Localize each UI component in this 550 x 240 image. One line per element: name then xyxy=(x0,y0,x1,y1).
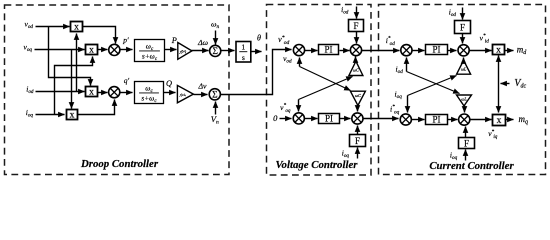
svg-text:ωL: ωL xyxy=(461,67,467,72)
wire V_n into sigma2 xyxy=(215,102,217,115)
wire X2 output to p sum xyxy=(98,49,108,51)
gain wL down xyxy=(457,95,472,106)
svg-text:Σ: Σ xyxy=(212,47,217,57)
wire V3 to PI xyxy=(305,118,318,120)
sum junction C1 xyxy=(401,45,412,56)
wire X1 output to p sum xyxy=(83,27,116,44)
multiplier X4 xyxy=(67,110,78,121)
gain wC up xyxy=(349,61,363,75)
svg-text:x: x xyxy=(74,23,79,33)
svg-text:Voltage Controller: Voltage Controller xyxy=(276,159,359,171)
wire v_oq input xyxy=(35,49,85,51)
multiplier X3 xyxy=(86,87,98,98)
svg-text:PI: PI xyxy=(432,115,440,125)
droop controller dashed box xyxy=(5,5,230,175)
PI voltage q-axis xyxy=(319,114,340,124)
gain -nq xyxy=(177,85,193,102)
wire PI to sum V2 xyxy=(340,50,350,52)
wire dw to sum1 xyxy=(192,50,209,52)
sum junction q xyxy=(109,87,120,98)
sum junction C4 xyxy=(459,114,470,125)
wire X3 output to q sum xyxy=(98,92,108,94)
svg-text:p′: p′ xyxy=(122,36,129,45)
svg-text:Δω: Δω xyxy=(197,38,209,47)
wire i_od feedback into C1 xyxy=(406,58,408,72)
svg-text:PI: PI xyxy=(325,114,333,124)
sum junction C3 xyxy=(400,114,411,125)
wire m_q output xyxy=(505,119,514,121)
wire PI to sum C4 xyxy=(448,119,458,121)
wire F output into C4 xyxy=(465,127,467,138)
wire i_oq input xyxy=(36,114,65,116)
wire v_oq feedback into V3 xyxy=(298,100,300,112)
wire i_oq branch to multiplier X2 xyxy=(55,57,93,115)
wire q to LPF2 xyxy=(120,92,133,94)
wire F output into V4 xyxy=(357,126,359,135)
svg-text:x: x xyxy=(497,116,502,126)
modulation divider x q-axis xyxy=(493,115,506,127)
wire PI to sum C2 xyxy=(448,50,457,52)
sum junction C2 xyxy=(458,45,469,56)
wire i_oq feedback into C3 xyxy=(407,96,409,113)
wire C3 to PI xyxy=(412,119,425,121)
svg-text:0: 0 xyxy=(273,113,278,123)
svg-text:x: x xyxy=(496,46,501,56)
svg-text:θ: θ xyxy=(257,33,261,42)
sum sigma1 xyxy=(210,45,221,57)
current controller dashed box xyxy=(379,5,546,175)
sum junction V2 xyxy=(350,45,361,56)
wire v_oq branch to multiplier X4 xyxy=(71,50,73,109)
wire i_od into F xyxy=(356,7,358,19)
low-pass filter block wc/(s+wc) P xyxy=(135,40,165,63)
svg-text:Δv: Δv xyxy=(197,81,207,90)
gain -mp xyxy=(177,43,191,60)
feedforward F voltage q-axis xyxy=(350,135,366,147)
sum junction p xyxy=(109,44,120,55)
svg-text:F: F xyxy=(353,21,358,31)
svg-text:Q: Q xyxy=(166,79,172,88)
wire V_dc to divider d-axis xyxy=(498,56,500,84)
wire m_d output xyxy=(505,50,514,52)
svg-text:ωC: ωC xyxy=(353,68,359,73)
wire i_od into F xyxy=(462,8,464,20)
wire i_od cross-coupling diagonal to wL gain xyxy=(407,72,460,94)
wire F output into V2 xyxy=(356,32,358,44)
multiplier X2 xyxy=(86,45,98,56)
wire p to LPF1 xyxy=(120,49,133,51)
wire wL gain into C4 xyxy=(464,106,466,113)
wire v*_od reference from sigma2 into voltage controller xyxy=(221,50,292,95)
svg-text:ωC: ωC xyxy=(355,93,361,98)
svg-text:s: s xyxy=(242,53,245,62)
modulation divider x d-axis xyxy=(493,45,505,56)
sum junction V1 xyxy=(293,45,304,56)
wire v_od branch to multiplier X3 xyxy=(49,27,91,86)
wire wL gain into C2 xyxy=(463,58,465,61)
wire i_od branch to multiplier X1 xyxy=(76,34,78,92)
svg-text:F: F xyxy=(464,138,469,148)
multiplier X1 xyxy=(71,22,83,33)
wire v_od input xyxy=(36,26,70,28)
wire i_oq cross-coupling diagonal to wL gain xyxy=(408,76,457,96)
wire v*_iq to divider xyxy=(470,119,492,121)
svg-text:F: F xyxy=(460,22,465,32)
svg-text:PI: PI xyxy=(324,45,332,55)
svg-text:q′: q′ xyxy=(124,76,130,85)
PI current d-axis xyxy=(426,45,448,55)
wire V_dc input xyxy=(501,83,510,85)
wire i_od input xyxy=(36,91,85,93)
wire v_od feedback into V1 xyxy=(299,58,301,67)
svg-text:x: x xyxy=(89,46,94,56)
wire omega_n into sigma1 xyxy=(215,31,217,45)
wire P to droop gain xyxy=(165,49,177,51)
wire wC gain into V2 xyxy=(355,57,357,62)
PI current q-axis xyxy=(426,115,448,125)
low-pass filter block wc/(s+wc) Q xyxy=(135,82,164,105)
svg-text:x: x xyxy=(89,88,94,98)
wire F output into C2 xyxy=(462,34,464,44)
svg-text:1: 1 xyxy=(241,43,245,52)
sum junction V4 xyxy=(352,113,363,124)
wire X4 output to q sum xyxy=(78,100,115,115)
svg-text:x: x xyxy=(70,111,75,121)
svg-text:P: P xyxy=(171,36,177,45)
feedforward F voltage d-axis xyxy=(349,20,364,32)
wire V1 to PI xyxy=(305,50,318,52)
wire Q to droop gain xyxy=(164,92,176,94)
wire i_oq into F xyxy=(465,150,467,161)
integrator 1/s xyxy=(236,42,251,63)
wire PI to sum V4 xyxy=(340,118,351,120)
voltage controller dashed box xyxy=(267,5,372,176)
svg-text:F: F xyxy=(355,136,360,146)
feedforward F current q-axis xyxy=(459,138,475,149)
wire v_od cross-coupling diagonal to wC gain xyxy=(300,67,351,91)
wire V_dc to divider q-axis xyxy=(498,84,500,113)
svg-text:Σ: Σ xyxy=(212,91,217,101)
PI voltage d-axis xyxy=(319,45,339,55)
wire i_oq into F xyxy=(357,148,359,159)
gain wL up xyxy=(457,60,471,74)
wire dv to sum2 xyxy=(194,94,208,96)
sum junction V3 xyxy=(293,113,304,124)
svg-text:Current Controller: Current Controller xyxy=(429,160,514,172)
wire 0 into sum V3 xyxy=(280,118,292,120)
svg-text:Droop Controller: Droop Controller xyxy=(80,158,159,170)
gain wC down xyxy=(350,91,365,105)
wire C1 to PI xyxy=(413,50,425,52)
wire theta output xyxy=(251,51,262,53)
wire v_oq cross-coupling diagonal to wC gain xyxy=(299,77,353,100)
wire i*_oq to current controller xyxy=(364,118,399,120)
sum sigma2 xyxy=(209,89,220,101)
wire wC gain into V4 xyxy=(357,106,359,112)
wire v*_id to divider xyxy=(470,50,492,52)
wire i*_od to current controller xyxy=(362,50,400,52)
svg-text:ωL: ωL xyxy=(461,97,467,102)
svg-text:PI: PI xyxy=(432,45,440,55)
feedforward F current d-axis xyxy=(455,21,471,34)
wire sigma1 to integrator xyxy=(221,50,235,52)
